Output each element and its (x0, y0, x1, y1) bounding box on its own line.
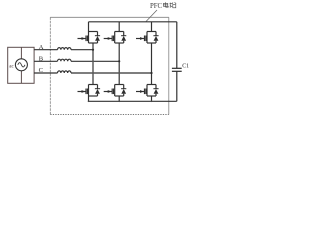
wire: leg2 mid vertical (118, 43, 120, 85)
svg-text:B: B (39, 56, 44, 63)
cap plate bottom (172, 70, 182, 72)
label PFC电路 (150, 2, 176, 10)
wire: Q6 source to bus (151, 96, 153, 101)
wire: bus drop to Q5 (151, 22, 153, 32)
phase line B (34, 60, 57, 62)
wire: Q2 source to bus (88, 96, 90, 101)
node B junction (118, 60, 120, 62)
mosfet Q4 (bottom leg2) (104, 85, 127, 97)
glyph 电 (163, 3, 167, 6)
wire: internal vertical to circle (20, 47, 22, 59)
capacitor C1 (172, 22, 189, 102)
svg-text:PFC: PFC (150, 3, 163, 10)
junction Q6-bus (151, 101, 153, 103)
inductor LA (58, 48, 72, 50)
mosfet Q2 (bottom leg1) (78, 85, 101, 97)
node C junction (150, 72, 152, 74)
wire: cap bottom lead (176, 72, 178, 102)
mosfet Q1 (top leg1) (78, 32, 101, 44)
wire: Q4 source to bus (118, 96, 120, 101)
label leader line (146, 10, 157, 22)
wire crossing blob C x leg1 (92, 72, 94, 74)
inductor LB (58, 59, 72, 61)
node A junction (92, 49, 94, 51)
PFC dashed enclosure box (50, 17, 169, 114)
wire: bus drop to Q3 (118, 22, 120, 32)
svg-text:ac: ac (9, 65, 14, 70)
phase line A (34, 49, 57, 51)
wire: bottom DC bus (89, 100, 177, 102)
cap plate top (172, 67, 182, 69)
mosfet Q3 (top leg2) (104, 32, 127, 44)
junction Q2-bus (88, 101, 90, 103)
sine wave (18, 63, 25, 67)
junction Q4-bus (118, 101, 120, 103)
svg-text:C: C (39, 67, 43, 74)
svg-text:A: A (39, 44, 44, 51)
wire: leg1 mid vertical (92, 43, 94, 85)
mosfet Q6 (bottom leg3) (136, 85, 159, 97)
inductor LC (58, 71, 72, 73)
glyph 路 (169, 3, 171, 8)
ac source circle (15, 59, 27, 71)
svg-text:C1: C1 (182, 64, 189, 70)
wire: bus drop to Q1 (88, 22, 90, 32)
wire: leg3 mid vertical (151, 43, 153, 85)
wire: top DC bus (89, 21, 177, 23)
wire crossing blob B x leg1 (92, 60, 94, 62)
mosfet Q5 (top leg3) (136, 32, 159, 44)
wire crossing blob C x leg2 (118, 72, 120, 74)
phase line C (34, 72, 57, 74)
AC source box (8, 47, 34, 83)
wire: cap top lead (176, 22, 178, 68)
